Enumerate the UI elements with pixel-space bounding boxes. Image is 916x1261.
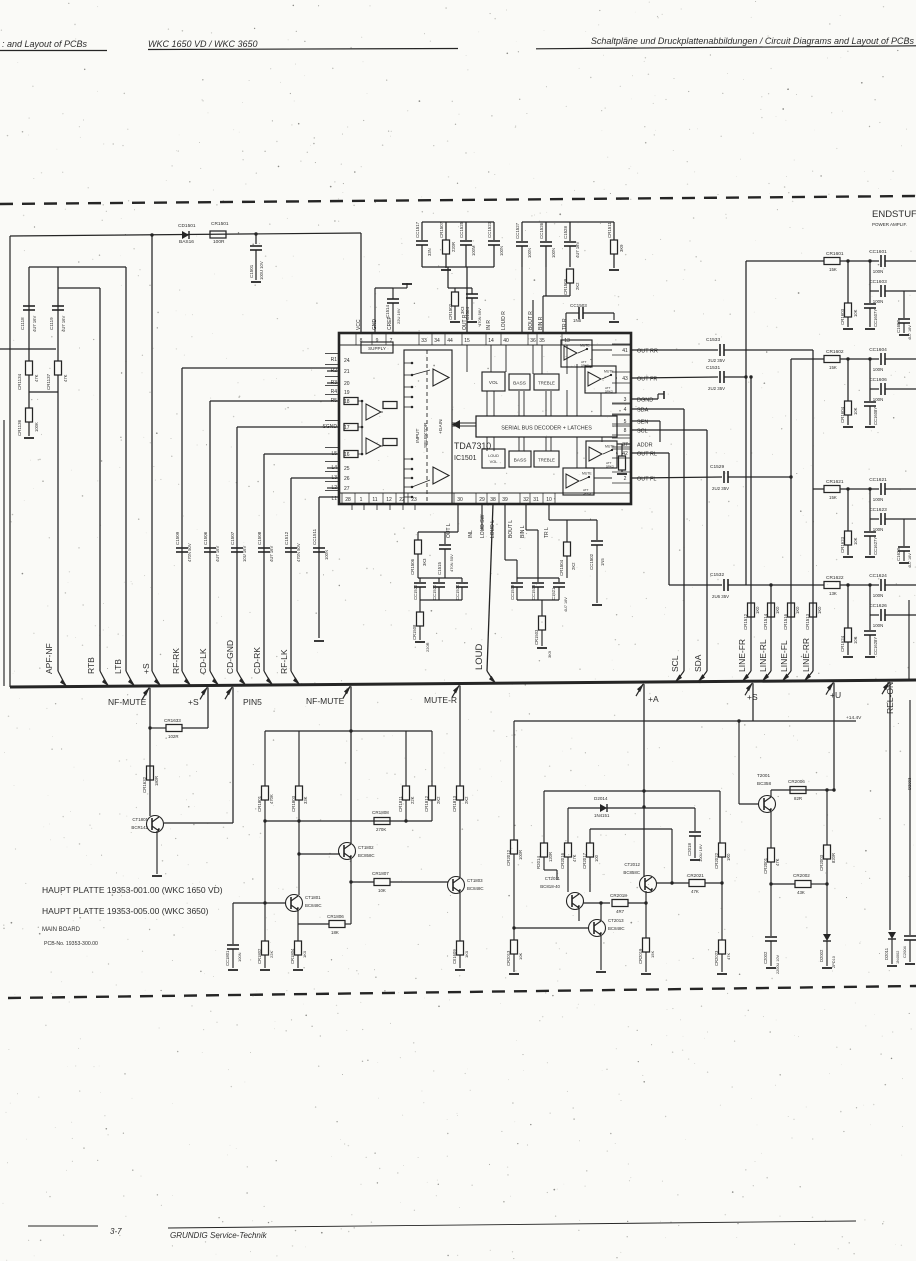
svg-text:SDA: SDA [637,408,649,414]
svg-text:CR1511: CR1511 [607,222,612,238]
svg-text:ADDR: ADDR [637,443,653,449]
svg-text:CR1807: CR1807 [372,871,389,876]
svg-text:CR2019: CR2019 [638,948,643,964]
svg-text:12: 12 [386,497,392,503]
svg-text:5PKG: 5PKG [606,465,615,469]
svg-text:VCC: VCC [356,319,362,330]
svg-text:CC1511: CC1511 [312,528,317,545]
svg-text:CR1504: CR1504 [559,559,564,576]
svg-text:15K: 15K [829,495,837,500]
svg-text:IN R: IN R [486,320,492,330]
svg-text:CT1802: CT1802 [358,845,374,850]
svg-text:25: 25 [344,466,350,472]
svg-text:2K2: 2K2 [571,562,576,570]
svg-text:470N 56V: 470N 56V [477,308,482,326]
svg-text:10: 10 [546,497,552,503]
svg-text:47K: 47K [775,858,780,866]
svg-text:4U7 16V: 4U7 16V [61,315,66,332]
svg-text:BCR142: BCR142 [131,825,148,830]
svg-text:100K: 100K [34,422,39,432]
svg-text:BC818-40: BC818-40 [540,884,560,889]
svg-text:100N: 100N [873,593,884,598]
svg-text:1N5: 1N5 [573,318,582,323]
svg-text:R5: R5 [331,398,338,404]
svg-text:C1609: C1609 [896,320,901,333]
svg-text:C1532: C1532 [710,572,724,578]
svg-text:TREBLE: TREBLE [538,381,555,386]
svg-text:4U7 16V: 4U7 16V [575,241,580,258]
svg-text:DGND: DGND [637,398,653,404]
svg-text:13: 13 [564,338,570,344]
svg-text:4U7 16V: 4U7 16V [215,545,220,562]
svg-text:10U 16V: 10U 16V [242,545,247,562]
svg-text:41: 41 [622,348,628,354]
svg-text:Schaltpläne und Druckplattenab: Schaltpläne und Druckplattenabbildungen … [591,36,915,46]
svg-text:24: 24 [344,358,350,364]
svg-text:MUTE: MUTE [604,370,614,374]
svg-text:C1506: C1506 [203,531,208,545]
svg-text:C1512: C1512 [284,531,289,545]
svg-text:CR1602: CR1602 [826,349,844,355]
svg-text:CR1507: CR1507 [439,221,444,238]
svg-text:CREF: CREF [387,316,393,330]
svg-text:SERIAL BUS DECODER + LATCHES: SERIAL BUS DECODER + LATCHES [501,426,592,432]
svg-text:47K: 47K [34,374,39,382]
svg-text:CR1621: CR1621 [826,479,844,485]
svg-text:INPUT: INPUT [415,429,421,443]
svg-text:SELEKTOR: SELEKTOR [423,422,429,448]
svg-text:43K: 43K [797,890,805,895]
svg-text:20: 20 [344,381,350,387]
svg-text:3K9: 3K9 [547,650,552,658]
svg-text:RF-LK: RF-LK [279,649,289,674]
svg-text:CC1623: CC1623 [869,507,887,513]
svg-text:10K: 10K [853,636,858,644]
svg-text:102R: 102R [168,734,179,739]
svg-text:MUTE: MUTE [582,472,592,476]
svg-text:SCL: SCL [637,429,648,435]
svg-text:C1118: C1118 [20,317,25,330]
svg-text:BC848C: BC848C [305,903,322,908]
svg-text:1N4002: 1N4002 [896,951,900,964]
svg-text:CC1627Y: CC1627Y [873,537,878,555]
svg-text:R1: R1 [331,357,338,363]
svg-text:C2018: C2018 [687,843,692,856]
svg-text:BC858C: BC858C [358,853,375,858]
svg-text:47K: 47K [63,374,68,382]
svg-text:CR1501: CR1501 [211,221,229,227]
svg-text:4U7 16V: 4U7 16V [564,597,568,612]
svg-text:CR1622: CR1622 [826,575,844,581]
svg-text:10K: 10K [853,537,858,545]
svg-text:26: 26 [344,476,350,482]
svg-text:2U2 35V: 2U2 35V [708,386,725,391]
svg-text:L1: L1 [331,496,337,502]
svg-text:CR1502: CR1502 [448,303,453,320]
svg-text:100N: 100N [873,623,884,628]
svg-text:CR1516: CR1516 [783,613,788,630]
svg-text:CC1527: CC1527 [515,222,520,239]
svg-text:CC1607Y: CC1607Y [873,309,878,327]
svg-text:CR1802: CR1802 [257,948,262,964]
svg-text:CC1624: CC1624 [869,573,887,579]
svg-text:C1531: C1531 [706,365,720,371]
svg-text:APF-NF: APF-NF [44,643,54,674]
svg-text:TR L: TR L [544,527,550,538]
svg-text:1N5: 1N5 [600,558,605,566]
svg-text:2K2: 2K2 [464,796,469,804]
svg-text:TREBLE: TREBLE [538,458,555,463]
svg-text:31: 31 [533,497,539,503]
svg-text:2: 2 [624,476,627,482]
svg-text:47K: 47K [691,889,699,894]
svg-text:28: 28 [345,497,351,503]
svg-text:CC1606: CC1606 [869,377,887,383]
svg-text:100N: 100N [873,367,884,372]
svg-text:100U 16V: 100U 16V [698,844,703,862]
svg-text:10K: 10K [518,953,523,960]
svg-text:CC1603: CC1603 [869,279,887,285]
svg-text:4U7 16V: 4U7 16V [908,553,912,568]
svg-text:4: 4 [624,407,627,413]
svg-text:: and Layout of PCBs: : and Layout of PCBs [2,39,88,49]
svg-text:1K0: 1K0 [726,853,731,861]
svg-text:C1509: C1509 [175,531,180,545]
svg-text:D2014: D2014 [594,796,608,801]
svg-text:1: 1 [360,497,363,503]
svg-text:22U 16V: 22U 16V [396,308,401,324]
svg-text:CC1601: CC1601 [869,249,887,255]
svg-text:100N: 100N [237,952,242,962]
svg-text:BIN R: BIN R [538,316,544,330]
svg-text:MUTE: MUTE [605,445,615,449]
svg-text:180R: 180R [154,776,159,786]
svg-text:470N 50V: 470N 50V [187,543,192,562]
svg-text:100N: 100N [873,269,884,274]
svg-text:+GAIN: +GAIN [438,419,444,434]
svg-text:BOUT R: BOUT R [528,311,534,330]
svg-text:R2014: R2014 [536,856,541,869]
svg-text:8: 8 [624,428,627,434]
svg-text:GRUNDIG Service-Technik: GRUNDIG Service-Technik [170,1231,268,1240]
svg-text:100U 10V: 100U 10V [259,261,264,280]
svg-text:3K3: 3K3 [422,558,427,566]
svg-text:CC1526: CC1526 [539,222,544,239]
svg-text:CR1509: CR1509 [563,278,568,295]
svg-text:38: 38 [490,497,496,503]
svg-text:30: 30 [457,497,463,503]
svg-text:CR2001: CR2001 [763,857,768,874]
svg-text:33K: 33K [303,796,308,804]
svg-text:LOUD R: LOUD R [501,311,507,330]
svg-text:WKC 1650 VD / WKC 3650: WKC 1650 VD / WKC 3650 [148,39,258,49]
svg-text:LINE-FR: LINE-FR [737,639,747,672]
svg-text:IC1501: IC1501 [454,455,477,462]
svg-text:C1533: C1533 [706,337,720,343]
svg-text:CR1137: CR1137 [46,373,51,390]
svg-text:CC1519: CC1519 [510,584,515,600]
svg-text:CR1506: CR1506 [410,558,415,575]
svg-text:CC1626: CC1626 [869,603,887,609]
svg-text:43: 43 [622,376,628,382]
svg-text:19: 19 [344,390,350,396]
svg-text:5PKG: 5PKG [605,390,614,394]
svg-text:3: 3 [624,397,627,403]
svg-text:CR2022: CR2022 [714,852,719,869]
svg-text:3-7: 3-7 [110,1227,122,1236]
svg-text:CT2012: CT2012 [624,862,640,867]
svg-text:10K: 10K [853,407,858,415]
svg-text:VOL: VOL [490,459,499,464]
svg-text:100N: 100N [499,246,504,256]
svg-text:CR1623: CR1623 [840,536,845,553]
svg-text:CT1803: CT1803 [467,878,483,883]
svg-text:CC1520: CC1520 [432,584,437,600]
svg-text:2U2 35V: 2U2 35V [708,358,725,363]
svg-text:18K: 18K [331,930,339,935]
svg-text:CR1632: CR1632 [142,776,147,793]
svg-text:CC1522: CC1522 [413,584,418,600]
svg-text:CR2006: CR2006 [788,779,805,784]
svg-text:CR2002: CR2002 [793,873,810,878]
svg-text:100N: 100N [527,248,532,258]
svg-text:CR1806: CR1806 [327,914,344,919]
svg-text:C2002: C2002 [763,951,768,964]
svg-text:LOUD: LOUD [488,453,499,458]
svg-text:RTB: RTB [86,657,96,674]
svg-text:CC1604: CC1604 [869,347,887,353]
svg-text:120R: 120R [548,852,553,862]
svg-text:CR2013: CR2013 [506,950,511,966]
svg-text:HAUPT PLATTE 19353-005.00 (WKC: HAUPT PLATTE 19353-005.00 (WKC 3650) [42,906,209,916]
svg-text:LINE-RL: LINE-RL [758,639,768,672]
svg-text:15K: 15K [829,365,837,370]
svg-text:RF-RK: RF-RK [171,648,181,674]
svg-text:CD-GND: CD-GND [225,640,235,674]
svg-text:100R: 100R [518,850,523,860]
svg-text:OUT L: OUT L [446,523,452,538]
svg-text:1K0: 1K0 [302,950,307,958]
svg-text:CR2017: CR2017 [582,852,587,869]
svg-text:100R: 100R [213,239,225,245]
svg-text:22K: 22K [269,951,274,958]
svg-text:BASS: BASS [513,381,526,387]
svg-text:BAS16: BAS16 [179,239,194,245]
svg-text:BOUT L: BOUT L [508,520,514,538]
svg-text:15K: 15K [829,267,837,272]
svg-text:OUT R: OUT R [462,314,468,330]
svg-text:220R: 220R [425,642,430,652]
svg-text:+14.4V: +14.4V [846,715,862,721]
svg-text:C1629: C1629 [896,548,901,561]
svg-text:BIN L: BIN L [520,525,526,538]
svg-text:100N: 100N [324,550,329,560]
svg-text:MUTE: MUTE [580,344,590,348]
svg-text:SDA: SDA [693,654,703,672]
svg-text:4U7 16V: 4U7 16V [269,545,274,562]
svg-text:CR2003: CR2003 [819,854,824,871]
svg-text:820R: 820R [831,853,836,863]
svg-text:CR2016: CR2016 [560,852,565,869]
svg-text:14: 14 [488,338,494,344]
svg-text:L5: L5 [331,451,337,457]
svg-text:ENDSTUFEN: ENDSTUFEN [872,209,916,220]
svg-text:2U6 35V: 2U6 35V [712,594,729,599]
svg-text:R2: R2 [331,368,338,374]
svg-text:C1515: C1515 [437,562,442,575]
svg-text:CD-LK: CD-LK [198,648,208,674]
svg-text:CC1801: CC1801 [225,950,230,966]
svg-text:3K9: 3K9 [619,244,624,252]
svg-text:C1521: C1521 [551,587,556,600]
svg-text:82R: 82R [794,796,802,801]
svg-text:1K0: 1K0 [817,606,822,614]
svg-text:CR1601: CR1601 [826,251,844,257]
svg-text:CC1628Y: CC1628Y [873,637,878,655]
svg-text:C1529: C1529 [710,464,724,470]
svg-text:POWER AMPLIF.: POWER AMPLIF. [872,222,907,227]
svg-text:LINE-RR: LINE-RR [801,638,811,672]
svg-text:CR1514: CR1514 [763,613,768,630]
svg-text:CC1502: CC1502 [589,553,594,570]
svg-text:9: 9 [376,338,379,344]
svg-text:SUPPLY: SUPPLY [368,346,386,351]
svg-text:BASS: BASS [514,458,527,464]
svg-text:TR R: TR R [562,318,568,330]
svg-text:CT2011: CT2011 [545,876,561,881]
svg-text:C1501: C1501 [249,264,254,278]
svg-text:NF-MUTE: NF-MUTE [306,696,345,706]
svg-text:GND: GND [372,319,378,331]
svg-text:CR1801: CR1801 [257,795,262,812]
svg-text:36: 36 [530,338,536,344]
svg-text:15: 15 [464,338,470,344]
svg-text:CR1804: CR1804 [290,948,295,964]
svg-text:D2002: D2002 [819,949,824,962]
svg-text:L4: L4 [331,465,337,471]
svg-text:HAUPT PLATTE 19353-001.00 (WKC: HAUPT PLATTE 19353-001.00 (WKC 1650 VD) [42,885,223,895]
svg-text:2K2: 2K2 [575,282,580,290]
svg-text:44: 44 [447,338,453,344]
svg-text:CR1811: CR1811 [398,796,403,812]
svg-text:CR1624: CR1624 [840,635,845,652]
svg-text:100: 100 [594,854,599,862]
svg-text:33N: 33N [427,248,432,256]
svg-text:CR2023: CR2023 [714,950,719,966]
svg-text:INL: INL [468,530,474,538]
svg-text:22K: 22K [410,796,415,804]
svg-text:1K0: 1K0 [775,606,780,614]
svg-text:BC848C: BC848C [608,926,625,931]
svg-text:33: 33 [421,338,427,344]
svg-text:15K: 15K [650,951,655,958]
svg-text:CD1501: CD1501 [178,223,196,229]
svg-text:4U7 16V: 4U7 16V [908,325,912,340]
svg-text:D2011: D2011 [884,947,889,960]
svg-text:1K0: 1K0 [755,606,760,614]
svg-text:CR1603: CR1603 [840,308,845,325]
svg-text:7: 7 [390,338,393,344]
svg-text:D2003: D2003 [907,777,912,790]
svg-text:CR1136: CR1136 [17,419,22,436]
svg-text:CR1633: CR1633 [164,718,181,723]
svg-text:CT1801: CT1801 [305,895,321,900]
svg-text:L3: L3 [331,475,337,481]
svg-text:C1528: C1528 [563,226,568,239]
svg-text:BC358: BC358 [757,781,771,786]
svg-text:CT2013: CT2013 [608,918,624,923]
svg-text:CR1813: CR1813 [452,795,457,812]
svg-text:470N 50V: 470N 50V [296,543,301,562]
svg-text:LTB: LTB [113,659,123,674]
svg-text:39: 39 [502,497,508,503]
svg-text:100M: 100M [471,245,476,256]
svg-text:C1119: C1119 [49,317,54,330]
svg-text:2200U 10V: 2200U 10V [776,955,780,974]
svg-text:CC1523: CC1523 [487,221,492,238]
svg-text:CR1808: CR1808 [372,810,389,815]
svg-text:CR1604: CR1604 [840,406,845,423]
svg-text:CR2012: CR2012 [506,849,511,866]
svg-text:T2001: T2001 [757,773,770,778]
svg-text:+U: +U [830,690,841,700]
svg-text:CC1621: CC1621 [869,477,887,483]
svg-text:CR1134: CR1134 [17,373,22,390]
svg-text:C1508: C1508 [257,531,262,545]
svg-text:CR1503: CR1503 [534,629,539,645]
svg-text:CR2021: CR2021 [687,873,704,878]
svg-text:21: 21 [344,369,350,375]
svg-text:C2004: C2004 [902,945,907,958]
svg-text:BC858C: BC858C [623,870,640,875]
svg-text:SCL: SCL [670,655,680,672]
svg-text:LOUD SW: LOUD SW [480,514,486,538]
svg-text:470K: 470K [269,794,274,804]
svg-text:C1514: C1514 [385,305,390,318]
svg-text:CC1517: CC1517 [415,221,420,238]
svg-text:270K: 270K [376,827,386,832]
svg-text:2U2 35V: 2U2 35V [712,486,729,491]
svg-text:34: 34 [434,338,440,344]
svg-text:CR1812: CR1812 [424,795,429,812]
svg-text:4R7: 4R7 [616,909,625,914]
svg-text:4U7 16V: 4U7 16V [32,315,37,332]
svg-text:+S: +S [188,697,199,707]
svg-text:10K: 10K [378,888,386,893]
svg-text:13K: 13K [829,591,837,596]
svg-text:100N: 100N [873,497,884,502]
svg-text:35: 35 [539,338,545,344]
svg-text:470N 50V: 470N 50V [449,554,454,572]
svg-text:+A: +A [648,694,659,704]
svg-text:CC1503: CC1503 [570,303,587,308]
svg-text:C1507: C1507 [230,531,235,545]
svg-text:11: 11 [372,497,377,503]
svg-text:CC1608Y: CC1608Y [873,407,878,425]
svg-text:MAIN BOARD: MAIN BOARD [42,927,81,933]
svg-text:BC848C: BC848C [467,886,484,891]
svg-text:5PKG: 5PKG [583,492,592,496]
svg-text:CC1518: CC1518 [531,584,536,600]
svg-text:29: 29 [479,497,485,503]
svg-text:LINE-FL: LINE-FL [779,640,789,672]
svg-text:CC1524: CC1524 [455,584,460,600]
svg-text:CR1512: CR1512 [743,613,748,630]
svg-text:1K0: 1K0 [795,606,800,614]
svg-text:LOUD: LOUD [474,643,485,670]
svg-text:PCB-No. 19353-300.00: PCB-No. 19353-300.00 [44,941,98,947]
svg-text:SEN: SEN [637,420,648,426]
